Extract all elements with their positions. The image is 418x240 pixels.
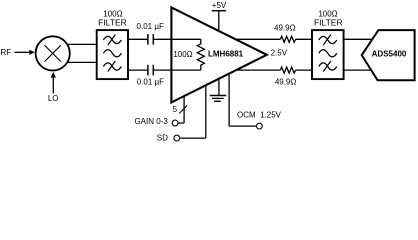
svg-text:LMH6881: LMH6881 — [208, 50, 244, 59]
svg-text:0.01 µF: 0.01 µF — [137, 77, 164, 86]
svg-text:5: 5 — [173, 105, 178, 114]
svg-text:GAIN 0-3: GAIN 0-3 — [134, 117, 168, 126]
svg-text:LO: LO — [48, 94, 59, 103]
svg-text:0.01 µF: 0.01 µF — [137, 22, 164, 31]
svg-text:RF: RF — [1, 48, 12, 57]
svg-text:OCM 1.25V: OCM 1.25V — [237, 111, 282, 120]
svg-text:100Ω: 100Ω — [173, 50, 192, 59]
svg-text:49.9Ω: 49.9Ω — [274, 24, 296, 33]
svg-text:49.9Ω: 49.9Ω — [275, 77, 297, 86]
svg-text:ADS5400: ADS5400 — [372, 50, 407, 59]
svg-text:SD: SD — [157, 134, 168, 143]
svg-text:+5V: +5V — [212, 1, 227, 10]
svg-text:FILTER: FILTER — [98, 18, 127, 28]
svg-text:FILTER: FILTER — [314, 18, 343, 28]
svg-text:2.5V: 2.5V — [271, 49, 288, 58]
